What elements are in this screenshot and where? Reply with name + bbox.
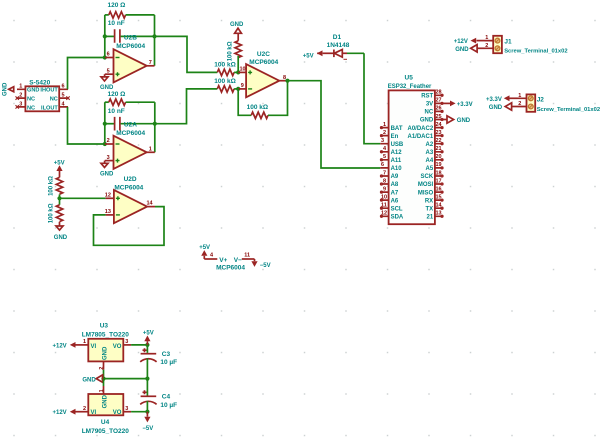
svg-text:5: 5 (107, 68, 110, 74)
svg-text:BAT: BAT (391, 126, 403, 132)
svg-text:23: 23 (436, 130, 442, 136)
node junction U2A pin2 (103, 142, 107, 146)
svg-text:GND: GND (3, 82, 9, 96)
svg-text:C3: C3 (162, 351, 171, 358)
svg-text:+5V: +5V (143, 331, 154, 337)
svg-text:2: 2 (485, 43, 488, 49)
resistor R feedback1 120 Ohm (105, 2, 155, 18)
power -12V flag at U4 VI (53, 409, 81, 416)
diode D1 1N4148 (323, 34, 364, 59)
svg-text:VI: VI (91, 410, 97, 416)
svg-text:MCP6004: MCP6004 (114, 184, 143, 191)
svg-text:LM7805_TO220: LM7805_TO220 (82, 332, 130, 339)
svg-text:100 kΩ: 100 kΩ (228, 41, 234, 61)
svg-text:C4: C4 (162, 393, 171, 400)
svg-text:100 kΩ: 100 kΩ (48, 203, 54, 223)
svg-text:SCL: SCL (391, 206, 403, 212)
svg-text:J2: J2 (537, 96, 545, 103)
node junction cap1 right (152, 34, 156, 38)
power +12V flag at U3 VI (53, 342, 81, 349)
svg-text:1N4148: 1N4148 (327, 42, 350, 49)
svg-text:15: 15 (436, 194, 442, 200)
power GND flag at rail (82, 375, 102, 384)
power +5V flag at U3 VO (143, 331, 154, 345)
svg-text:+3.3V: +3.3V (457, 102, 473, 108)
svg-text:USB: USB (391, 142, 404, 148)
svg-text:1: 1 (99, 389, 105, 392)
svg-text:−5V: −5V (260, 263, 271, 269)
svg-text:A11: A11 (391, 158, 402, 164)
svg-text:NC: NC (425, 110, 434, 116)
svg-text:A4: A4 (426, 158, 434, 164)
svg-text:2: 2 (99, 367, 105, 370)
svg-text:+3.3V: +3.3V (486, 97, 502, 103)
ground at U2A pin3 (100, 161, 114, 178)
wire ILOUT to U2A (68, 107, 105, 144)
node junction cap1 left (103, 34, 107, 38)
svg-text:5: 5 (383, 154, 386, 160)
svg-text:SDA: SDA (391, 215, 404, 221)
svg-text:U2B: U2B (124, 34, 137, 41)
svg-text:21: 21 (436, 146, 442, 152)
op-amp U2 power pins V+ V- (204, 252, 254, 271)
svg-text:MCP6004: MCP6004 (249, 59, 278, 66)
power +12V flag at J1 pin1 (454, 38, 485, 45)
svg-text:Screw_Terminal_01x02: Screw_Terminal_01x02 (537, 107, 600, 113)
wire feedback2 right (154, 102, 156, 152)
svg-text:NC: NC (27, 105, 35, 111)
svg-text:U4: U4 (101, 419, 110, 426)
svg-text:28: 28 (436, 90, 442, 96)
wire U4 VO to -5V node (131, 411, 147, 413)
svg-text:GND: GND (27, 88, 39, 94)
svg-text:10: 10 (240, 67, 246, 73)
wire feedback1 right (154, 15, 156, 66)
svg-text:A3: A3 (426, 150, 434, 156)
ground at U2B pin5 (100, 74, 114, 91)
power -5V flag at U4 VO (142, 412, 153, 432)
svg-text:U2C: U2C (257, 51, 270, 58)
op-amp U2A (105, 121, 155, 169)
svg-text:A6: A6 (391, 198, 399, 204)
svg-text:11: 11 (244, 252, 250, 258)
svg-text:5: 5 (62, 93, 65, 99)
op-amp U2D (105, 176, 155, 223)
svg-text:A5: A5 (426, 166, 434, 172)
svg-text:+12V: +12V (53, 410, 67, 416)
svg-text:GND: GND (102, 394, 108, 408)
power +3.3V flag at J2 pin1 (486, 95, 518, 102)
resistor R divider bottom 100 kOhm (48, 198, 62, 226)
node junction U2C pin9 (236, 87, 240, 91)
svg-text:2: 2 (383, 130, 386, 136)
svg-text:10 µF: 10 µF (160, 359, 177, 366)
svg-text:24: 24 (436, 122, 443, 128)
svg-text:RX: RX (425, 198, 433, 204)
svg-text:MCP6004: MCP6004 (116, 43, 145, 50)
connector J2 Screw_Terminal (518, 93, 601, 113)
svg-text:17: 17 (436, 178, 442, 184)
node junction gnd rail right (145, 377, 149, 381)
svg-text:VO: VO (113, 344, 122, 350)
svg-text:IHOUT: IHOUT (40, 88, 58, 94)
svg-text:14: 14 (436, 203, 443, 209)
svg-text:100 kΩ: 100 kΩ (214, 62, 235, 69)
svg-text:U2D: U2D (124, 176, 137, 183)
svg-text:7: 7 (149, 60, 152, 66)
capacitor C feedback2 10 nF (105, 108, 155, 130)
svg-text:1: 1 (83, 339, 86, 345)
svg-text:A12: A12 (391, 150, 403, 156)
capacitor C4 10 uF (140, 379, 177, 412)
svg-text:NC: NC (27, 97, 35, 103)
svg-text:RST: RST (421, 94, 433, 100)
op-amp U2B (105, 34, 155, 82)
svg-text:A9: A9 (391, 174, 399, 180)
svg-text:13: 13 (105, 209, 111, 215)
node junction U2C pin10 (236, 70, 240, 74)
power +5V flag at U2 V+ (199, 245, 210, 259)
svg-text:21: 21 (427, 215, 434, 221)
svg-text:MCP6004: MCP6004 (216, 264, 245, 271)
power +5V flag divider (54, 161, 65, 178)
svg-text:VO: VO (113, 410, 122, 416)
svg-text:3: 3 (125, 339, 128, 345)
svg-text:VI: VI (91, 344, 97, 350)
svg-text:2: 2 (518, 101, 521, 107)
resistor R divider top 100 kOhm (48, 176, 62, 198)
ground below divider (54, 226, 68, 241)
svg-text:A0/DAC2: A0/DAC2 (408, 126, 434, 132)
svg-text:MISO: MISO (418, 190, 434, 196)
svg-text:GND: GND (489, 105, 503, 111)
wire U2D feedback (94, 207, 165, 246)
svg-text:GND: GND (457, 118, 471, 124)
resistor R in- 100 kOhm (214, 78, 238, 92)
svg-text:3V: 3V (426, 102, 433, 108)
svg-text:GND: GND (100, 171, 114, 177)
svg-text:A8: A8 (391, 182, 399, 188)
svg-text:GND: GND (100, 85, 114, 91)
svg-text:MOSI: MOSI (418, 182, 434, 188)
node junction cap2 left (103, 122, 107, 126)
svg-text:U5: U5 (405, 74, 414, 81)
svg-text:U2A: U2A (124, 121, 137, 128)
svg-text:9: 9 (241, 83, 244, 89)
svg-text:10 µF: 10 µF (160, 402, 177, 409)
svg-text:100 kΩ: 100 kΩ (247, 104, 268, 111)
svg-text:3: 3 (19, 101, 22, 107)
svg-text:Screw_Terminal_01x02: Screw_Terminal_01x02 (504, 49, 567, 55)
wire U2C out to ESP32 A10 (288, 81, 381, 168)
svg-text:GND: GND (102, 346, 108, 360)
op-amp U2C (238, 51, 287, 97)
node junction U2B pin6 (103, 55, 107, 59)
svg-text:MCP6004: MCP6004 (116, 130, 145, 137)
svg-text:ESP32_Feather: ESP32_Feather (388, 84, 432, 90)
svg-text:18: 18 (436, 170, 442, 176)
regulator U4 LM7905 (81, 386, 132, 435)
svg-text:2: 2 (107, 138, 110, 144)
svg-text:GND: GND (455, 47, 469, 53)
wire divider to U2D pin12 (60, 197, 106, 199)
power +3.3V flag at U5 3V (443, 101, 472, 108)
power -5V flag at U2 V- (251, 259, 270, 269)
svg-text:1: 1 (383, 122, 386, 128)
svg-text:27: 27 (436, 98, 442, 104)
svg-text:100 kΩ: 100 kΩ (48, 176, 54, 196)
svg-text:V+: V+ (219, 257, 227, 264)
capacitor C feedback1 10 nF (105, 20, 155, 43)
svg-text:+5V: +5V (199, 245, 210, 251)
svg-text:D1: D1 (333, 34, 342, 41)
wire feedback1 left (104, 15, 106, 58)
svg-text:10: 10 (381, 194, 387, 200)
wire U3 GND pin to gnd rail (103, 370, 105, 379)
svg-text:10 nF: 10 nF (108, 20, 125, 27)
svg-text:14: 14 (147, 201, 154, 207)
power GND flag at J2 pin2 (489, 103, 518, 111)
svg-text:+12V: +12V (53, 343, 67, 349)
svg-text:1: 1 (149, 146, 152, 152)
svg-text:V−: V− (234, 257, 242, 264)
svg-text:+5V: +5V (303, 53, 314, 59)
capacitor C3 10 uF (140, 345, 177, 379)
resistor R pulldown U2C 100 kOhm (228, 41, 242, 73)
power GND flag at J1 pin2 (455, 45, 484, 53)
svg-text:En: En (391, 134, 399, 140)
power GND flag at U5 GND (443, 116, 471, 124)
svg-text:TX: TX (426, 206, 434, 212)
power GND flag at P1 pin1 (3, 82, 14, 96)
svg-text:7: 7 (383, 170, 386, 176)
svg-text:10 nF: 10 nF (108, 108, 125, 115)
node junction U2C out (285, 79, 289, 83)
wire U3 VO to +5V node (131, 344, 147, 346)
svg-text:20: 20 (436, 154, 442, 160)
svg-text:2: 2 (19, 93, 22, 99)
connector J1 Screw_Terminal (485, 35, 568, 54)
wire U2A out to U2C (155, 89, 218, 124)
svg-text:3: 3 (107, 155, 110, 161)
svg-text:NC: NC (50, 97, 58, 103)
svg-text:25: 25 (436, 114, 442, 120)
connector P1 S-5420 (16, 80, 70, 112)
node junction +5V C3 (145, 343, 149, 347)
svg-text:J1: J1 (504, 38, 512, 45)
resistor R feedback U2C 100 kOhm (238, 81, 287, 119)
svg-text:A7: A7 (391, 190, 399, 196)
resistor R feedback2 120 Ohm (105, 91, 155, 105)
node junction cap2 right (153, 122, 157, 126)
wire IHOUT to U2B (68, 58, 105, 90)
resistor R in+ 100 kOhm (214, 62, 238, 76)
svg-text:GND: GND (230, 22, 244, 28)
wire D1 to ESP32 USB (364, 53, 380, 143)
svg-text:+5V: +5V (54, 161, 65, 167)
svg-text:11: 11 (381, 203, 387, 209)
svg-text:19: 19 (436, 162, 442, 168)
svg-text:3: 3 (125, 406, 128, 412)
svg-text:+12V: +12V (454, 39, 468, 45)
svg-text:GND: GND (420, 118, 434, 124)
svg-text:12: 12 (381, 211, 387, 217)
svg-text:3: 3 (381, 138, 384, 144)
svg-text:26: 26 (436, 106, 442, 112)
svg-text:9: 9 (383, 186, 386, 192)
node junction gnd rail left (101, 377, 105, 381)
node junction divider (57, 196, 61, 200)
ground flag above U2C (230, 22, 244, 41)
svg-text:U3: U3 (100, 323, 109, 330)
U5 left pins (380, 122, 404, 221)
svg-text:1: 1 (518, 93, 521, 99)
svg-text:6: 6 (62, 84, 65, 90)
svg-text:22: 22 (436, 138, 442, 144)
power +5V flag at D1 (303, 50, 323, 59)
svg-text:6: 6 (381, 162, 384, 168)
svg-text:100 kΩ: 100 kΩ (214, 78, 235, 85)
wire gnd rail (104, 378, 148, 380)
svg-text:SCK: SCK (421, 174, 434, 180)
wire gnd rail to U4 GND pin (103, 379, 105, 386)
wire feedback2 left (104, 102, 106, 144)
svg-text:6: 6 (107, 52, 110, 58)
svg-text:A10: A10 (391, 166, 403, 172)
wire U2B out to U2C (155, 36, 218, 72)
svg-text:120 Ω: 120 Ω (108, 2, 126, 9)
svg-text:13: 13 (436, 211, 442, 217)
svg-text:16: 16 (436, 186, 442, 192)
svg-text:8: 8 (383, 178, 386, 184)
svg-text:LM7905_TO220: LM7905_TO220 (82, 428, 130, 435)
svg-text:1: 1 (485, 35, 488, 41)
svg-text:A2: A2 (426, 142, 434, 148)
regulator U3 LM7805 (81, 323, 132, 370)
svg-text:2: 2 (83, 406, 86, 412)
svg-text:1: 1 (19, 84, 22, 90)
svg-text:GND: GND (54, 235, 68, 241)
svg-text:ILOUT: ILOUT (41, 105, 58, 111)
node junction -5V C4 (145, 410, 149, 414)
svg-text:−5V: −5V (142, 426, 153, 432)
svg-text:A1/DAC1: A1/DAC1 (408, 134, 434, 140)
svg-text:GND: GND (82, 377, 96, 383)
module U5 ESP32_Feather (388, 74, 435, 224)
svg-text:12: 12 (105, 192, 111, 198)
